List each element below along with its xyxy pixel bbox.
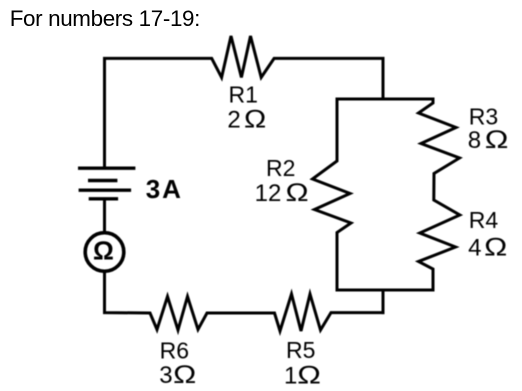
svg-text:R1: R1 [229, 82, 258, 108]
svg-text:Ω: Ω [286, 178, 309, 207]
svg-text:Ω: Ω [485, 126, 509, 154]
svg-text:4: 4 [468, 235, 481, 262]
svg-text:Ω: Ω [93, 236, 114, 266]
svg-text:Ω: Ω [173, 360, 196, 389]
svg-text:Ω: Ω [297, 361, 321, 389]
svg-text:2: 2 [227, 107, 240, 134]
svg-text:8: 8 [468, 127, 481, 154]
svg-text:R5: R5 [286, 337, 315, 363]
svg-text:R4: R4 [469, 207, 499, 233]
svg-text:1: 1 [284, 363, 297, 390]
svg-text:3: 3 [159, 362, 172, 389]
svg-text:Ω: Ω [484, 232, 507, 261]
svg-text:3A: 3A [146, 174, 183, 204]
svg-text:Ω: Ω [244, 105, 266, 133]
svg-text:12: 12 [255, 180, 282, 207]
